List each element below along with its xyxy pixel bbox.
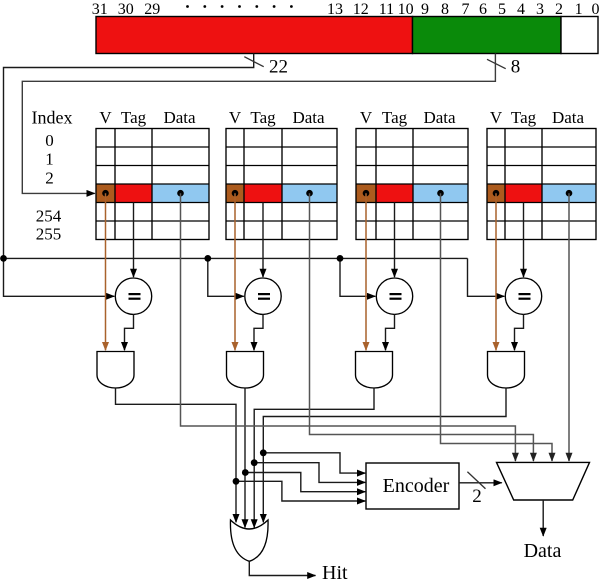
wire: AND2 output to OR gate input 2 [244, 388, 246, 528]
wire: valid bit of way 4 down to AND gate 4 (brown) [495, 193, 497, 350]
svg-text:10: 10 [398, 1, 414, 18]
way 2 data tap node [306, 190, 313, 197]
svg-text:V: V [229, 108, 242, 127]
svg-text:Data: Data [423, 108, 456, 127]
way 2 memory array grid [226, 129, 337, 240]
svg-text:22: 22 [269, 57, 288, 78]
way 1 selected-set tag cell (red) [115, 184, 152, 203]
way 4 memory array grid [487, 129, 596, 240]
bus width slash for select [467, 472, 485, 489]
comparator U3 (=) [376, 278, 412, 314]
way 1 selected-set valid cell (brown) [96, 184, 115, 203]
svg-text:5: 5 [498, 1, 506, 18]
AND gate G2 [227, 352, 264, 389]
comparator U2 (=) [245, 278, 281, 314]
address index field (green, bits 9-2) [413, 17, 562, 54]
svg-text:Hit: Hit [322, 562, 348, 580]
wire: hit line 1 branch to encoder input [236, 481, 365, 501]
wire: tag bus from red field down-left to comparator 1 [4, 54, 254, 297]
wire: data output of way 1 to mux input 1 [181, 193, 516, 461]
way 2 selected-set valid cell (brown) [226, 184, 244, 203]
wire: tag branch to comparator 3 [340, 258, 375, 296]
svg-text:V: V [99, 108, 112, 127]
svg-text:0: 0 [45, 131, 54, 150]
AND gate G4 [488, 352, 525, 389]
wire: data output of way 3 to mux input 3 [441, 193, 553, 461]
wire: stored tag of way 1 down to comparator 1 [133, 203, 135, 278]
svg-text:Data: Data [163, 108, 196, 127]
way 3 column headers V Tag Data [360, 108, 456, 127]
svg-text:Data: Data [524, 540, 562, 562]
junction node hit line 3 [251, 459, 258, 466]
way 4 column headers V Tag Data [490, 108, 585, 127]
svg-text:12: 12 [353, 1, 369, 18]
way 3 selected-set valid cell (brown) [356, 184, 376, 203]
wire: AND4 output to OR gate input 4 [263, 388, 506, 522]
svg-text:Tag: Tag [511, 108, 537, 127]
bus width slash for tag [244, 57, 263, 67]
wire: OR gate output Hit [249, 561, 315, 575]
way 4 selected-set tag cell (red) [505, 184, 542, 203]
wire: stored tag of way 4 down to comparator 4 [523, 203, 525, 278]
OR gate (hit) [230, 520, 268, 561]
wire: comparator 3 output to AND gate 3 [386, 314, 395, 350]
svg-text:9: 9 [421, 1, 429, 18]
address tag field (red, bits 31-10) [96, 17, 413, 54]
wire: data output of way 4 straight down to mux input 4 [568, 193, 570, 461]
AND gate G3 [356, 352, 393, 389]
wire: hit line 2 branch to encoder input [245, 473, 365, 492]
way 1 valid-bit tap node [102, 190, 109, 197]
svg-text:Data: Data [552, 108, 585, 127]
4-to-1 data multiplexer [497, 462, 590, 500]
svg-text:255: 255 [36, 225, 62, 244]
wire: valid bit of way 1 down to AND gate 1 (brown) [105, 193, 107, 350]
svg-text:Tag: Tag [382, 108, 408, 127]
svg-text:8: 8 [511, 57, 521, 78]
way 1 column headers V Tag Data [99, 108, 196, 127]
wire: stored tag of way 3 down to comparator 3 [394, 203, 396, 278]
wire: hit line 3 branch to encoder input [254, 463, 365, 483]
wire: valid bit of way 2 down to AND gate 2 (brown) [234, 193, 236, 350]
wire: tag branch to comparator 2 [208, 258, 244, 296]
svg-text:V: V [490, 108, 503, 127]
way 1 memory array grid [96, 129, 209, 240]
way 3 memory array grid [356, 129, 468, 240]
wire: AND3 output to OR gate input 3 [254, 388, 374, 528]
svg-text:6: 6 [479, 1, 487, 18]
svg-text:0: 0 [592, 1, 600, 18]
AND gate G1 [97, 352, 134, 389]
svg-text:2: 2 [555, 1, 563, 18]
bus width slash for index [487, 59, 506, 68]
svg-text:13: 13 [327, 1, 343, 18]
wire: data output of way 2 to mux input 2 [310, 193, 534, 461]
ellipsis dots between bit 29 and 13 [186, 5, 293, 8]
svg-text:2: 2 [45, 169, 54, 188]
wire: comparator 4 output to AND gate 4 [515, 314, 524, 350]
way 4 selected-set valid cell (brown) [487, 184, 505, 203]
svg-text:Encoder: Encoder [383, 475, 450, 497]
svg-text:Tag: Tag [121, 108, 147, 127]
wire: AND1 output to OR gate input 1 [116, 388, 237, 522]
wire: index bus from green field down-left into table row select [22, 54, 495, 194]
way 3 valid-bit tap node [363, 190, 370, 197]
wire: mux output [542, 500, 544, 536]
svg-text:3: 3 [536, 1, 544, 18]
svg-text:Index: Index [32, 108, 73, 128]
junction node on left tag bus [0, 255, 7, 262]
svg-text:8: 8 [441, 1, 449, 18]
wire: comparator 2 output to AND gate 2 [254, 314, 263, 350]
address block-offset field (white, bits 1-0) [561, 17, 598, 54]
svg-text:Tag: Tag [250, 108, 276, 127]
way 4 selected-set data cell (blue) [542, 184, 596, 203]
wire: comparator 1 output to AND gate 1 [125, 314, 134, 350]
encoder block [366, 463, 459, 509]
address bit number labels 31..0 [92, 1, 600, 18]
junction node hit line 4 [260, 449, 267, 456]
comparator U4 (=) [505, 278, 541, 314]
svg-text:V: V [360, 108, 373, 127]
svg-text:Data: Data [292, 108, 325, 127]
wire: stored tag of way 2 down to comparator 2 [262, 203, 264, 278]
wire: valid bit of way 3 down to AND gate 3 (brown) [365, 193, 367, 350]
svg-text:2: 2 [472, 486, 482, 507]
way 1 selected-set data cell (blue) [152, 184, 209, 203]
comparator U1 (=) [115, 278, 151, 314]
way 2 column headers V Tag Data [229, 108, 325, 127]
junction node tag branch 3 [337, 255, 344, 262]
svg-text:1: 1 [575, 1, 583, 18]
junction node hit line 2 [242, 469, 249, 476]
wire: encoder output (2-bit select) to mux [459, 482, 502, 484]
junction node tag branch 2 [204, 255, 211, 262]
wire: hit line 4 branch to encoder input [263, 453, 365, 473]
way 2 valid-bit tap node [232, 190, 239, 197]
svg-text:7: 7 [462, 1, 470, 18]
wire: tag compare distribution line [4, 257, 468, 259]
svg-text:31: 31 [92, 1, 108, 18]
svg-text:1: 1 [45, 150, 54, 169]
svg-text:11: 11 [379, 1, 394, 18]
way 2 selected-set tag cell (red) [244, 184, 282, 203]
way 3 data tap node [437, 190, 444, 197]
svg-text:254: 254 [36, 207, 62, 226]
svg-text:29: 29 [144, 1, 160, 18]
way 3 selected-set data cell (blue) [413, 184, 468, 203]
way 3 selected-set tag cell (red) [376, 184, 413, 203]
svg-text:30: 30 [118, 1, 134, 18]
svg-text:4: 4 [517, 1, 525, 18]
way 1 data tap node [177, 190, 184, 197]
way 4 data tap node [566, 190, 573, 197]
way 4 valid-bit tap node [493, 190, 500, 197]
junction node hit line 1 [233, 478, 240, 485]
wire: tag branch to comparator 4 [468, 258, 505, 296]
way 2 selected-set data cell (blue) [282, 184, 337, 203]
